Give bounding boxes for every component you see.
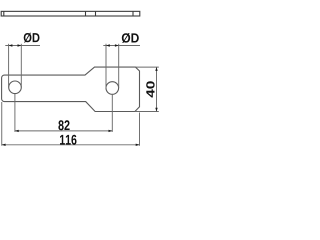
arrowheads: [2, 44, 158, 146]
dimension lines: [2, 44, 159, 146]
right OD extensions: [105, 44, 107, 88]
82 extensions: [14, 94, 16, 132]
left OD extensions: [8, 44, 10, 88]
label OD right: [122, 33, 139, 43]
left hole: [9, 81, 22, 94]
40 extensions: [136, 66, 159, 68]
116 extensions: [1, 102, 3, 146]
label 116: [60, 135, 77, 145]
left OD dim line: [5, 45, 40, 47]
label 40: [146, 81, 154, 97]
label 82: [58, 120, 69, 130]
116 dim line: [2, 144, 140, 146]
label OD left: [24, 33, 40, 43]
top view bar: [1, 11, 140, 16]
main outline: [2, 67, 140, 111]
40 dim line: [156, 67, 158, 111]
right hole: [106, 82, 119, 95]
texts: [24, 33, 155, 145]
82 dim line: [15, 130, 112, 132]
right OD dim line: [103, 45, 140, 47]
